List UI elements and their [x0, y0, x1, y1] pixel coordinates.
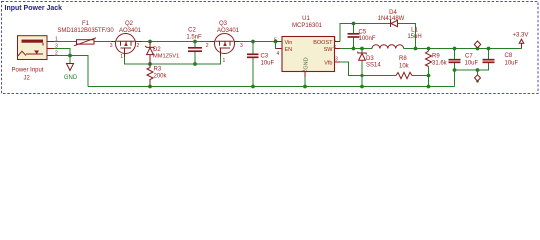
svg-text:1: 1 — [223, 58, 226, 64]
svg-text:C7: C7 — [465, 54, 473, 60]
svg-text:1.5nF: 1.5nF — [186, 35, 202, 41]
svg-text:D3: D3 — [366, 56, 374, 62]
svg-text:200k: 200k — [154, 74, 168, 80]
svg-text:4: 4 — [277, 51, 280, 57]
svg-text:R3: R3 — [154, 67, 162, 73]
svg-text:C5: C5 — [359, 30, 367, 36]
svg-text:SW: SW — [324, 47, 334, 53]
svg-text:Q2: Q2 — [125, 21, 134, 27]
svg-text:10uF: 10uF — [505, 61, 519, 67]
svg-text:5: 5 — [274, 38, 277, 44]
svg-text:BOOST: BOOST — [313, 40, 333, 46]
svg-text:Vfb: Vfb — [324, 61, 332, 67]
svg-text:10k: 10k — [399, 64, 410, 70]
svg-text:R9: R9 — [432, 54, 440, 60]
svg-text:C8: C8 — [505, 53, 513, 59]
svg-text:1: 1 — [334, 37, 337, 43]
svg-text:3: 3 — [335, 57, 338, 63]
svg-text:1: 1 — [120, 54, 123, 60]
svg-text:C2: C2 — [188, 28, 196, 34]
svg-text:C3: C3 — [261, 54, 269, 60]
svg-text:1N4148W: 1N4148W — [378, 16, 405, 22]
svg-text:Q3: Q3 — [219, 21, 228, 27]
svg-text:Power Input: Power Input — [12, 68, 44, 74]
svg-text:F1: F1 — [82, 21, 90, 27]
svg-text:31.6k: 31.6k — [432, 61, 448, 67]
svg-text:SMD1812B035TF/30: SMD1812B035TF/30 — [57, 28, 114, 34]
svg-text:EN: EN — [285, 47, 293, 53]
svg-text:GND: GND — [64, 75, 78, 81]
svg-text:10uF: 10uF — [261, 61, 275, 67]
svg-text:15uH: 15uH — [407, 34, 421, 40]
svg-text:3: 3 — [240, 43, 243, 49]
svg-text:2: 2 — [55, 51, 58, 57]
svg-text:100nF: 100nF — [359, 36, 376, 42]
svg-text:U1: U1 — [302, 16, 310, 22]
svg-text:MM1Z5V1: MM1Z5V1 — [153, 54, 179, 60]
svg-text:SS14: SS14 — [366, 63, 381, 69]
svg-text:Input Power Jack: Input Power Jack — [5, 5, 63, 12]
svg-text:R8: R8 — [399, 56, 407, 62]
svg-text:2: 2 — [206, 43, 209, 49]
svg-text:3: 3 — [55, 44, 58, 50]
svg-text:+3.3V: +3.3V — [513, 33, 529, 39]
svg-text:L1: L1 — [411, 28, 418, 34]
svg-text:10uF: 10uF — [465, 61, 479, 67]
svg-text:1: 1 — [55, 37, 58, 43]
svg-text:AO3401: AO3401 — [217, 28, 240, 34]
svg-text:Vin: Vin — [285, 40, 293, 46]
svg-text:3: 3 — [110, 43, 113, 49]
svg-text:AO3401: AO3401 — [119, 28, 142, 34]
svg-text:GND: GND — [304, 57, 310, 69]
svg-text:6: 6 — [334, 45, 337, 51]
svg-text:2: 2 — [137, 43, 140, 49]
svg-text:D2: D2 — [153, 47, 161, 53]
svg-text:MCP16301: MCP16301 — [292, 23, 323, 29]
svg-text:J2: J2 — [24, 76, 31, 82]
